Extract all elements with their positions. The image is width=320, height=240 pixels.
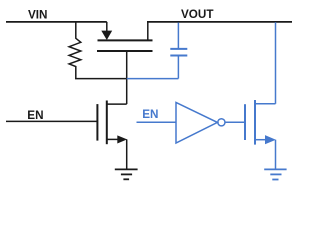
transistor Q2 source arrow xyxy=(117,135,127,143)
wire capacitor to gate node (blue) xyxy=(127,78,179,80)
capacitor C1 top lead xyxy=(177,23,179,49)
wire Q3 drain riser to VOUT rail (blue) xyxy=(275,22,277,104)
transistor Q3 NMOS gate bar (blue) xyxy=(244,104,246,140)
transistor Q3 drain lead (blue) xyxy=(255,103,276,105)
ground (blue) xyxy=(264,169,286,179)
transistor Q3 source arrow (blue) xyxy=(265,135,276,144)
transistor Q1 gate bar xyxy=(97,50,153,52)
wire VIN rail xyxy=(6,21,107,23)
transistor Q2 NMOS gate bar xyxy=(96,104,98,141)
wire Q2 source to ground xyxy=(126,139,128,169)
transistor Q1 PMOS source lead xyxy=(106,22,108,32)
wire Q1 gate lead down to Q2 drain xyxy=(126,51,128,104)
transistor Q1 channel bar xyxy=(98,39,153,41)
capacitor C1 plates xyxy=(170,49,187,56)
svg-text:VIN: VIN xyxy=(28,8,47,21)
wire EN (black) xyxy=(6,120,97,122)
transistor Q1 PMOS source arrow xyxy=(101,31,112,40)
wire VOUT rail xyxy=(147,21,292,23)
wire Q1 drain riser xyxy=(147,22,149,41)
svg-text:VOUT: VOUT xyxy=(181,8,214,21)
wire Q3 source to ground (blue) xyxy=(275,140,277,170)
resistor R1 xyxy=(69,22,81,79)
transistor Q3 NMOS channel bar (blue) xyxy=(254,100,256,145)
inverter U1 bubble xyxy=(218,119,225,126)
wire EN to inverter (blue) xyxy=(137,121,177,123)
transistor Q2 source lead xyxy=(107,138,118,140)
svg-text:EN: EN xyxy=(142,108,158,121)
transistor Q3 source lead (blue) xyxy=(255,139,266,141)
wire resistor bottom to gate node xyxy=(75,78,127,80)
inverter U1 triangle xyxy=(176,102,217,143)
transistor Q2 NMOS channel bar xyxy=(106,101,108,145)
wire inverter output to Q3 gate xyxy=(225,121,245,123)
ground (black) xyxy=(115,169,138,179)
svg-text:EN: EN xyxy=(27,109,43,122)
transistor Q2 drain lead xyxy=(107,103,127,105)
capacitor C1 bottom lead xyxy=(177,56,179,78)
